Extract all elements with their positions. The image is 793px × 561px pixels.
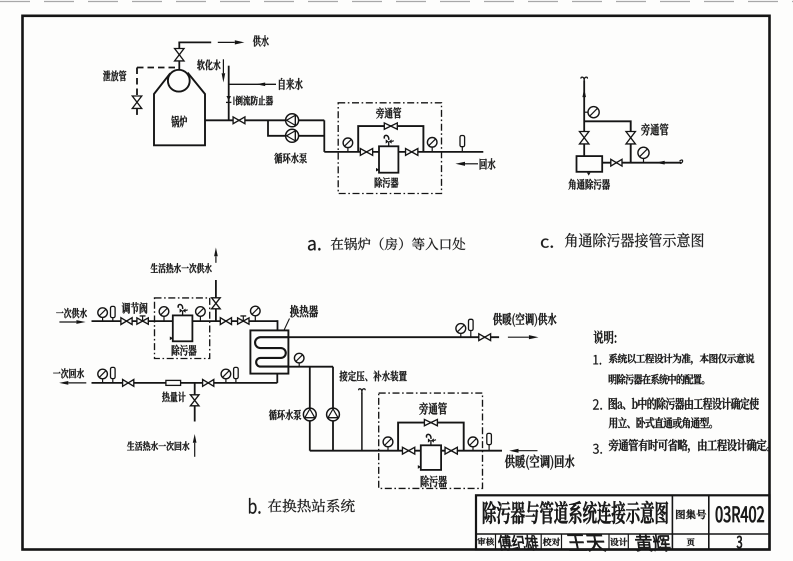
drain arrow separator b1 (170, 337, 173, 341)
primary supply flow arrow (76, 320, 85, 324)
label 供暖（空调）回水 (505, 455, 575, 470)
title block row divider (476, 533, 770, 535)
pressure gauge b6 (298, 363, 300, 367)
caption 在换热站系统 (268, 499, 355, 513)
pressure gauge b5 (460, 333, 462, 337)
label 旁通管 c (641, 123, 668, 135)
primary return line (92, 382, 278, 384)
label 生活热水一次供水 (151, 263, 212, 273)
bottom row divider d (608, 534, 610, 550)
secondary return flow arrow (509, 449, 518, 453)
label leader 换热器 (284, 319, 290, 331)
valve on bypass c (626, 132, 635, 144)
label 校对 (543, 538, 560, 546)
wire: drop to separator line (323, 120, 325, 152)
DHW return arrow (193, 434, 197, 443)
note 3 number (593, 444, 602, 454)
label tick (233, 97, 235, 106)
valve a main left (360, 149, 372, 156)
pressure gauge b2-left (387, 447, 389, 451)
title block col divider 1 (671, 495, 673, 549)
label 调节阀 (122, 302, 148, 314)
tap water horizontal pipe (229, 83, 276, 85)
pressure gauge b4 (225, 379, 227, 383)
note 2 number (593, 399, 602, 410)
label 循环水泵 (274, 153, 307, 164)
wire: supply header to 供水 (178, 41, 211, 43)
circulating pump b2 (327, 408, 340, 421)
tap water vertical pipe (228, 66, 230, 121)
caption 在锅炉（房）等入口处 (331, 238, 466, 251)
return flow arrow a (455, 162, 465, 166)
bypass pipe c drop (630, 144, 632, 163)
bypass pipe c (584, 121, 631, 131)
valve on boiler outlet riser (175, 49, 184, 61)
blow-off pipe dashed vertical (136, 68, 138, 97)
label 一次供水 (56, 308, 87, 318)
label 除污器 b1 (172, 345, 197, 356)
circulating pump b1 (303, 408, 316, 421)
angle dirt separator 角通除污器 (577, 156, 603, 172)
heat exchanger coil (255, 337, 288, 366)
label 角通除污器 (569, 179, 610, 190)
vent cock on separator a (388, 142, 390, 147)
label 生活热水一次回水 (127, 441, 189, 451)
tap water flow arrow (256, 83, 265, 87)
flow arrow c (656, 161, 665, 165)
signature 王天 (567, 535, 606, 552)
blow-off pipe 泄放管 dashed horizontal (137, 67, 179, 69)
valve on bypass a (384, 123, 397, 129)
label 一次回水 (53, 368, 84, 378)
label 设计 (610, 538, 627, 546)
pressure gauge b1-left (163, 316, 165, 321)
valve b2 main right (445, 447, 457, 454)
signature 傅纪雄 (498, 535, 539, 551)
thermometer b2r (488, 445, 490, 451)
pressure gauge b2-right (472, 447, 474, 451)
pump line 2 lower (332, 421, 334, 451)
page number 3 (737, 536, 742, 549)
valve a main right (406, 149, 418, 156)
title 除污器与管道系统连接示意图 (483, 501, 668, 524)
wire: supply drop into exchanger (277, 320, 279, 330)
label 审核 (477, 538, 494, 546)
main line c (602, 162, 681, 164)
valve b supply 1 (121, 318, 132, 325)
DHW supply riser (215, 309, 217, 321)
heat exchanger 换热器 shell (250, 330, 288, 373)
boiler drum circle (168, 70, 190, 92)
DHW return riser lower (194, 406, 196, 422)
label 除污器 a (375, 177, 399, 188)
pressure gauge c2 (643, 158, 645, 162)
secondary return bottom line (310, 450, 502, 452)
title block col divider 2 (708, 495, 710, 549)
thermometer b4 (235, 379, 237, 383)
pressure gauge b1-right (199, 316, 201, 321)
control valve b supply (238, 318, 249, 324)
boiler body 锅炉 (154, 73, 205, 146)
valve b supply 2 (220, 318, 231, 325)
label 供暖（空调）供水 (493, 313, 557, 327)
bypass pipe a (358, 126, 423, 152)
up arrow on riser c (582, 89, 586, 98)
label 旁通管 a (376, 107, 401, 118)
notes heading 说明: (594, 331, 617, 344)
flow arrow to 供水 (235, 40, 245, 44)
label 除污器 b2 (421, 476, 447, 488)
dirt separator a 除污器 (379, 146, 398, 172)
DHW riser upper (215, 280, 217, 298)
wire: pump branch upper (268, 119, 324, 121)
label 旁通管 b2 (419, 402, 447, 415)
thermometer b1 (112, 318, 114, 322)
label 循环水泵 b (269, 410, 301, 421)
valve on bypass b2 (424, 419, 437, 425)
bypass pipe b2 (398, 423, 464, 451)
valve b2 main left (402, 447, 414, 454)
thermometer b5 (470, 331, 472, 338)
valve on boiler outlet main (233, 117, 245, 124)
pressure gauge b3 (102, 379, 104, 383)
secondary return line upper (288, 366, 333, 368)
heat meter 热量计 (166, 380, 181, 385)
label 倒流防止器 (236, 96, 274, 106)
hook top of riser c (581, 77, 587, 82)
vent cock separator b2 (430, 441, 432, 446)
label 锅炉 (171, 116, 187, 128)
riser pipe c lower (583, 144, 585, 156)
DHW return riser (194, 383, 196, 395)
pump line 1 (309, 367, 311, 409)
note 3 line (609, 439, 770, 453)
drain arrow separator b2 (418, 465, 421, 469)
title block outline (476, 495, 770, 549)
bottom row divider b (540, 534, 542, 550)
caption a. (308, 240, 321, 251)
label 自来水 (279, 78, 303, 90)
bottom row divider a (495, 534, 497, 550)
dirt separator b1 (173, 315, 193, 341)
pressure gauge b1 (102, 317, 104, 321)
label 页 (687, 538, 695, 546)
label 泄放管 (103, 70, 126, 81)
note 2 line 1 (609, 398, 759, 410)
drain arrow c (587, 173, 591, 176)
dashed assembly box b1 (155, 298, 210, 359)
softened water down arrow (222, 73, 226, 82)
vent cock separator b1 (182, 311, 184, 316)
dashed assembly box a (338, 103, 441, 194)
pump line 2 (332, 367, 334, 409)
riser pipe c (583, 81, 585, 132)
pressure gauge a-right (431, 147, 433, 152)
thermometer a (461, 147, 463, 152)
label 软化水 (197, 60, 220, 71)
secondary supply line (288, 336, 499, 338)
note 2 line 2 (609, 417, 712, 428)
valve b return 1 (123, 380, 134, 387)
control valve 调节阀 (137, 318, 148, 324)
caption c. (541, 239, 553, 248)
label 图集号 (676, 509, 706, 519)
pressure gauge b2 (254, 316, 256, 321)
signature 黄辉 (635, 535, 670, 552)
caption b. (249, 498, 261, 514)
hook top make-up riser (359, 389, 365, 394)
label 换热器 (290, 305, 318, 318)
blow-off pipe dashed tail (136, 108, 138, 117)
valve secondary supply (479, 334, 491, 341)
primary supply line (92, 320, 278, 322)
drain arrow separator a (376, 168, 379, 172)
wire: boiler steam outlet riser (178, 42, 180, 70)
note 1 line 2 (609, 374, 705, 385)
scan edge top (0, 1, 793, 3)
valve c main (611, 159, 622, 166)
atlas number 03R402 (716, 506, 764, 522)
dirt separator b2 (421, 445, 441, 470)
dashed assembly box b2 (379, 393, 483, 488)
backflow preventer 倒流防止器 symbol (226, 96, 231, 101)
circulating pump 2 (286, 129, 299, 142)
wire: pump branch lower (268, 120, 324, 136)
make-up water riser (361, 393, 363, 451)
caption 角通除污器接管示意图 (565, 233, 704, 248)
primary return flow arrow (59, 381, 68, 385)
note 1 line 1 (609, 353, 755, 364)
note 1 number (593, 355, 601, 365)
label 回水 (480, 158, 496, 170)
pump line 1 lower (309, 421, 311, 451)
DHW riser arrow (214, 248, 218, 257)
bottom row divider c (561, 534, 563, 550)
valve b return 2 (203, 380, 214, 387)
wire: exchanger bottom stub (276, 374, 278, 383)
label 接定压、补水装置 (340, 371, 407, 382)
valve on riser c (580, 132, 589, 144)
label 供水 (253, 35, 269, 46)
valve on blow-off pipe (132, 96, 141, 108)
secondary supply flow arrow (529, 335, 539, 339)
hook right end c (680, 160, 683, 164)
pressure gauge c1 (588, 107, 599, 118)
thermometer b3 (112, 379, 114, 383)
valve on DHW return riser (190, 395, 199, 406)
pressure gauge a-left (347, 148, 349, 152)
bottom row divider e (627, 534, 629, 550)
wire: separator main line a (324, 151, 483, 153)
label 热量计 (162, 392, 186, 402)
wire: boiler outlet main (205, 119, 268, 121)
circulating pump 1 (286, 114, 299, 127)
valve on DHW riser (212, 298, 221, 309)
